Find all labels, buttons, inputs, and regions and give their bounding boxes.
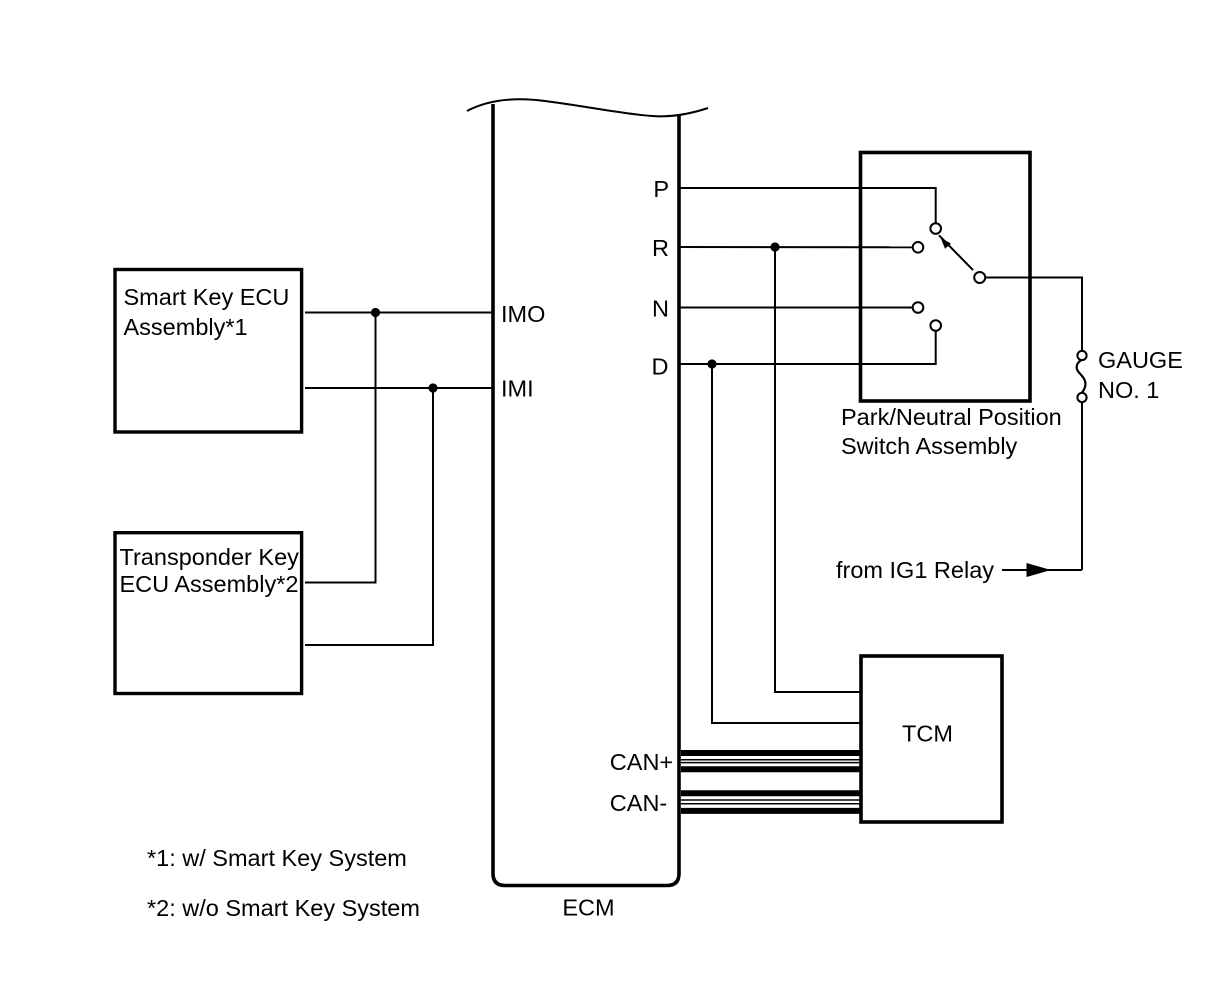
svg-text:ECM: ECM	[562, 895, 614, 921]
wire: switch common to fuse	[985, 278, 1082, 351]
fuse GAUGE NO. 1	[1077, 351, 1087, 402]
svg-text:GAUGE: GAUGE	[1098, 347, 1183, 373]
junction dot on R wire	[770, 242, 779, 251]
svg-text:NO. 1: NO. 1	[1098, 377, 1159, 403]
svg-text:from IG1 Relay: from IG1 Relay	[836, 557, 994, 583]
wire: D junction down to TCM	[712, 364, 860, 723]
wire IMO: Smart Key ECU to ECM pin IMO	[305, 312, 493, 314]
Park/Neutral Position Switch Assembly box	[861, 153, 1031, 402]
switch contact D	[930, 320, 941, 331]
svg-text:Transponder Key: Transponder Key	[120, 544, 300, 570]
switch contact R	[913, 242, 924, 253]
svg-text:*1: w/ Smart Key System: *1: w/ Smart Key System	[147, 845, 407, 871]
junction dot on IMI wire	[428, 383, 437, 392]
svg-text:ECU Assembly*2: ECU Assembly*2	[120, 571, 299, 597]
wire IMI: Smart Key ECU to ECM pin IMI	[305, 387, 493, 389]
from IG1 Relay arrow wire	[1002, 563, 1082, 577]
svg-text:IMO: IMO	[501, 301, 545, 327]
svg-text:Switch Assembly: Switch Assembly	[841, 433, 1018, 459]
wire: R junction down to TCM	[775, 247, 860, 692]
svg-text:IMI: IMI	[501, 376, 534, 402]
switch contact P	[930, 223, 941, 234]
wire: fuse down to IG1 relay feed	[1081, 402, 1083, 570]
wire R: ECM to switch contact R	[679, 246, 912, 248]
junction dot on D wire	[707, 359, 716, 368]
Transponder Key ECU Assembly label	[120, 544, 300, 597]
Park/Neutral Position Switch Assembly label	[841, 404, 1062, 459]
svg-text:Smart Key ECU: Smart Key ECU	[124, 284, 290, 310]
svg-text:CAN-: CAN-	[610, 790, 667, 816]
junction dot on IMO wire	[371, 308, 380, 317]
wire N: ECM to switch contact N	[679, 307, 912, 309]
fuse label GAUGE NO. 1	[1098, 347, 1183, 403]
svg-text:N: N	[652, 296, 669, 322]
wire P: ECM to switch contact P	[679, 188, 936, 223]
wire: IMO junction down to Transponder Key ECU	[305, 313, 376, 583]
switch arm with arrowhead	[939, 235, 973, 270]
svg-text:CAN+: CAN+	[610, 749, 673, 775]
svg-text:*2: w/o Smart Key System: *2: w/o Smart Key System	[147, 895, 420, 921]
svg-text:TCM: TCM	[902, 721, 953, 747]
switch contact N	[913, 302, 924, 313]
Transponder Key ECU Assembly box	[115, 533, 302, 694]
CAN+ bus wires: ECM to TCM	[681, 753, 860, 769]
wire D: ECM to switch contact D	[679, 331, 936, 364]
Smart Key ECU Assembly label	[124, 284, 290, 340]
svg-text:R: R	[652, 235, 669, 261]
switch common contact	[974, 272, 985, 283]
svg-text:D: D	[652, 354, 669, 380]
Smart Key ECU Assembly box	[115, 270, 302, 433]
CAN- bus wires: ECM to TCM	[681, 793, 860, 811]
TCM box	[861, 656, 1002, 822]
ECM connector body U1 (torn-top outline)	[467, 99, 708, 885]
svg-text:Assembly*1: Assembly*1	[124, 314, 248, 340]
svg-text:P: P	[653, 176, 669, 202]
svg-text:Park/Neutral Position: Park/Neutral Position	[841, 404, 1062, 430]
wire: IMI junction down to Transponder Key ECU	[305, 388, 433, 645]
